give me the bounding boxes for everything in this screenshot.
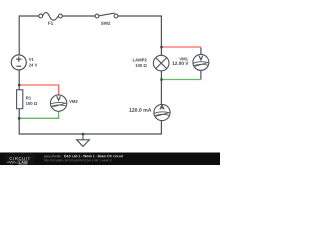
voltmeter VM1 (193, 54, 209, 70)
fuse F1 (39, 13, 63, 21)
label V1 24V (29, 58, 34, 61)
green wire VM2 bottom to R1 bottom junction (19, 112, 58, 119)
footer title text (44, 155, 63, 158)
footer url text (44, 159, 112, 162)
wire V1 bottom to R1 top (18, 70, 20, 90)
green wire lamp bottom junction to VM1 bottom (161, 79, 201, 81)
readout 12.00 V (172, 62, 188, 65)
label VM1 (179, 58, 187, 61)
ground (77, 134, 90, 146)
wire VM1 top lead (200, 48, 202, 55)
wire switch to top-right corner down to lamp (118, 16, 161, 56)
wire top-left corner to fuse (19, 16, 39, 55)
wire R1 bottom to bottom-left corner to ground (19, 109, 83, 134)
label SW2 (101, 22, 110, 25)
node junction ground (82, 133, 84, 135)
voltage source V1 (11, 55, 26, 70)
resistor R1 (17, 90, 23, 109)
red wire lamp junction to VM1 (161, 46, 201, 48)
lamp LAMP2 (153, 55, 169, 71)
CircuitLab logo CIRCUIT (10, 157, 31, 160)
switch SW2 (95, 13, 118, 18)
label VM2 (69, 100, 77, 103)
label R1 100ohm (26, 97, 31, 100)
footer bar (0, 153, 220, 166)
node junction lamp top / VM1+ (160, 46, 162, 48)
wire fuse to switch (62, 15, 95, 17)
CircuitLab logo LAB (19, 161, 27, 164)
label LAMP2 100ohm (133, 58, 147, 61)
node junction lamp bottom / VM1- (160, 78, 162, 80)
label F1 (48, 22, 53, 25)
red wire R1 junction to VM2 top (19, 85, 58, 95)
node junction R1 bottom / VM2- (18, 117, 20, 119)
wire lamp bottom to ammeter top (160, 70, 162, 104)
wire VM1 bottom lead (200, 70, 202, 79)
wire bottom rail ground to ammeter (83, 121, 161, 134)
voltmeter VM2 (50, 95, 66, 111)
CircuitLab logo zigzag (7, 161, 17, 164)
node junction V1-R1 / VM2+ (18, 84, 20, 86)
readout 120.0 mA (129, 108, 151, 112)
ammeter (154, 104, 170, 120)
